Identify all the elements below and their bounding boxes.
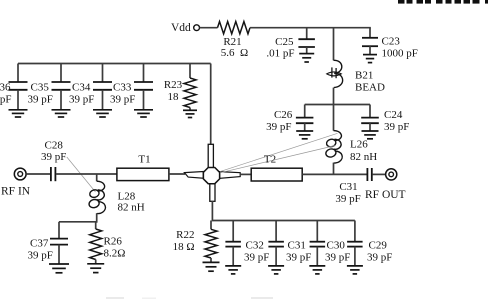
capacitor C28 (series) (41, 140, 66, 182)
capacitor C33 (110, 64, 153, 118)
transmission line T1 (117, 154, 169, 181)
wire T1 to transistor (169, 173, 185, 175)
wire C28 to T1 (56, 173, 118, 175)
svg-text:C25: C25 (275, 36, 294, 48)
svg-text:18 Ω: 18 Ω (173, 241, 195, 253)
capacitor C26 (266, 105, 313, 139)
svg-text:39 pF: 39 pF (69, 93, 94, 105)
svg-text:39 pF: 39 pF (325, 252, 350, 264)
svg-text:5.6 Ω: 5.6 Ω (221, 47, 248, 59)
leader lines transistor to L26 (220, 133, 338, 171)
capacitor C35 (28, 64, 71, 118)
capacitor C32 (bottom bank) (225, 221, 269, 274)
cropped title text top-right (398, 0, 488, 4)
wire bottom capacitor bus (212, 220, 355, 222)
svg-text:L26: L26 (350, 139, 368, 151)
svg-text:C24: C24 (384, 109, 403, 121)
svg-text:.01 pF: .01 pF (266, 48, 294, 60)
svg-text:C30: C30 (327, 240, 346, 252)
wire Vdd line down to bead (333, 28, 335, 61)
svg-text:C34: C34 (72, 82, 91, 94)
svg-text:39 pF: 39 pF (28, 249, 53, 261)
inductor L28 (88, 181, 145, 222)
wire bus down to transistor top lead (210, 64, 212, 146)
svg-text:C35: C35 (31, 82, 50, 94)
wire C31 to RF OUT (372, 173, 385, 175)
svg-text:C33: C33 (113, 82, 132, 94)
wire bus to L26 (333, 105, 335, 131)
svg-text:C32: C32 (246, 240, 264, 252)
capacitor C37 (28, 222, 70, 273)
svg-text:BEAD: BEAD (355, 82, 385, 94)
svg-text:39 pF: 39 pF (286, 252, 311, 264)
svg-text:RF IN: RF IN (1, 186, 31, 198)
svg-text:39 pF: 39 pF (367, 252, 392, 264)
svg-text:39 pF: 39 pF (110, 93, 135, 105)
svg-text:R23: R23 (164, 79, 183, 91)
inductor L26 (325, 131, 377, 175)
svg-text:C31: C31 (339, 181, 357, 193)
svg-text:8.2Ω: 8.2Ω (104, 248, 126, 260)
connector RF IN (1, 168, 31, 197)
resistor R22 (173, 221, 220, 272)
svg-text:Vdd: Vdd (171, 22, 191, 34)
node Vdd terminal (171, 22, 200, 34)
svg-text:C29: C29 (369, 240, 388, 252)
resistor R26 (87, 222, 125, 273)
wire R21 to C23 (250, 27, 371, 29)
capacitor C31 (series output) (335, 168, 371, 205)
svg-text:39 pF: 39 pF (384, 121, 409, 133)
svg-text:C36: C36 (0, 82, 11, 94)
wire left capacitor bus (18, 63, 211, 65)
svg-text:1000 pF: 1000 pF (382, 48, 418, 60)
svg-text:B21: B21 (355, 70, 373, 82)
wire T2 to C31 (302, 173, 367, 175)
svg-text:R22: R22 (176, 229, 194, 241)
svg-text:C23: C23 (382, 36, 401, 48)
svg-text:39 pF: 39 pF (28, 93, 53, 105)
capacitor C23 (362, 28, 418, 63)
capacitor C30 (bottom bank) (309, 221, 350, 274)
leader line C28 label to L28 (67, 157, 96, 192)
svg-text:82 nH: 82 nH (118, 202, 145, 214)
cropped caption bottom (faint) (106, 297, 273, 299)
resistor R21 (218, 22, 251, 60)
svg-text:RF OUT: RF OUT (365, 189, 406, 201)
svg-text:T2: T2 (264, 154, 276, 166)
svg-text:18: 18 (168, 91, 180, 103)
svg-text:C26: C26 (274, 109, 293, 121)
capacitor C36 (0, 64, 28, 118)
transmission line T2 (251, 154, 302, 182)
wire junction down to L28 (96, 174, 98, 181)
wire RF IN to C28 (26, 173, 50, 175)
svg-text:39 pF: 39 pF (266, 121, 291, 133)
capacitor C25 (266, 28, 315, 62)
wire bead to bus (333, 88, 335, 105)
svg-text:39 pF: 39 pF (244, 252, 269, 264)
wire C26-C24 bus (305, 104, 370, 106)
wire transistor to T2 (240, 173, 251, 175)
svg-text:T1: T1 (138, 154, 150, 166)
svg-text:C37: C37 (30, 238, 49, 250)
connector RF OUT (365, 169, 406, 201)
svg-text:C31: C31 (288, 240, 306, 252)
svg-text:C28: C28 (45, 140, 64, 152)
wire L28 to C37 (59, 221, 98, 223)
svg-text:39 pF: 39 pF (41, 151, 66, 163)
svg-text:39 pF: 39 pF (335, 193, 360, 205)
wire transistor bottom lead to bus (211, 201, 213, 221)
capacitor C34 (69, 64, 112, 118)
resistor R23 (164, 64, 197, 118)
capacitor C24 (361, 105, 409, 139)
svg-text:R26: R26 (104, 236, 123, 248)
capacitor C31 (bottom bank) (268, 221, 311, 274)
transistor Q1 (package) (184, 144, 240, 201)
capacitor C29 (bottom bank) (347, 221, 392, 274)
svg-text:82 nH: 82 nH (350, 151, 377, 163)
ferrite bead B21 (327, 60, 385, 93)
svg-text:39 pF: 39 pF (0, 93, 12, 105)
wire Vdd to R21 (200, 27, 218, 29)
